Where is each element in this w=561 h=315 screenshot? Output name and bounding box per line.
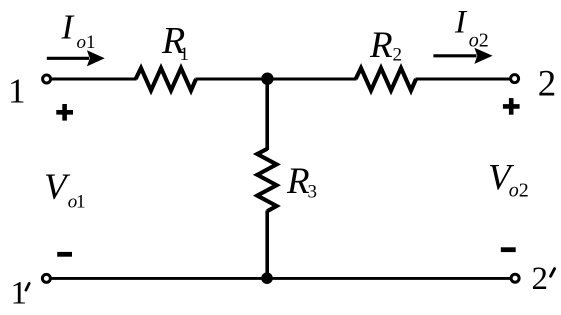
wire: vertical segment node A to R3: [265, 79, 269, 150]
label R2: [369, 25, 402, 66]
wire: top rail left segment (terminal 1 to R1): [51, 78, 137, 81]
label terminal 1': [11, 276, 30, 312]
svg-text:1: 1: [11, 276, 28, 312]
plus sign (port 2 polarity): [503, 98, 520, 115]
svg-text:R: R: [286, 161, 310, 202]
svg-text:I: I: [454, 5, 468, 41]
svg-text:o: o: [469, 29, 479, 51]
terminal 1' (open circle): [42, 274, 50, 282]
wire: vertical segment R3 to node B: [265, 211, 269, 279]
node A junction dot (top center): [261, 73, 273, 85]
svg-text:I: I: [61, 8, 76, 47]
plus sign (port 1 polarity): [56, 104, 73, 121]
svg-text:o: o: [77, 32, 87, 53]
resistor R2: [356, 68, 416, 91]
svg-text:1: 1: [180, 44, 190, 65]
resistor R1: [136, 68, 196, 91]
svg-text:2: 2: [479, 29, 489, 51]
svg-text:o: o: [509, 180, 519, 202]
svg-text:2: 2: [538, 63, 557, 104]
svg-text:1: 1: [8, 72, 26, 111]
terminal 2' (open circle): [511, 274, 519, 282]
svg-text:2: 2: [532, 261, 549, 297]
terminal 2 (open circle): [511, 75, 519, 83]
svg-text:3: 3: [308, 182, 318, 203]
label terminal 2': [532, 261, 555, 297]
label R3: [286, 161, 317, 203]
minus sign (port 1 polarity): [57, 252, 72, 257]
label R1: [161, 20, 189, 65]
resistor R3: [257, 149, 276, 211]
wire: top rail middle segment (R1 to node A): [196, 78, 357, 81]
minus sign (port 2 polarity): [501, 247, 516, 252]
wire: bottom rail (terminal 1' to terminal 2'): [52, 277, 511, 280]
svg-text:2: 2: [519, 180, 529, 202]
label Io1: [61, 8, 96, 54]
current arrow Io1 (left, pointing right): [47, 50, 105, 66]
label Io2: [454, 5, 489, 52]
svg-text:1: 1: [76, 192, 86, 213]
svg-text:1: 1: [86, 32, 96, 53]
svg-text:R: R: [369, 25, 393, 66]
svg-text:2: 2: [393, 45, 403, 66]
node B junction dot (bottom center): [261, 272, 273, 284]
wire: top rail right segment (R2 to terminal 2): [416, 78, 510, 81]
label Vo2: [488, 158, 529, 202]
label Vo1: [44, 167, 86, 213]
current arrow Io2 (right, pointing right): [433, 48, 492, 64]
terminal 1 (open circle): [43, 75, 51, 83]
